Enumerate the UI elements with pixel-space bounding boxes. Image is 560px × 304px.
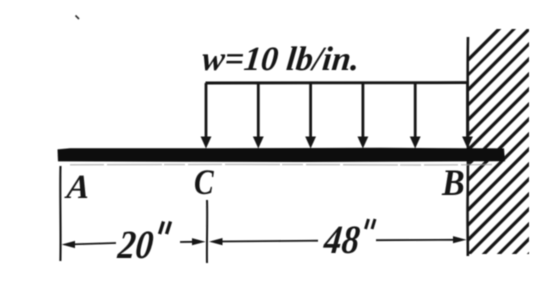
svg-text:w=10 lb/in.: w=10 lb/in. [200,41,361,78]
dim 48 left line segment [217,240,318,243]
dim 20 left line segment [67,243,116,245]
dim 20 right line segment [180,241,196,243]
load arrow 4 [358,83,369,149]
beam [58,148,506,162]
wall hatching [428,0,538,304]
beam lower scan artifact line [70,163,492,166]
svg-text:48: 48 [321,218,362,262]
load arrow 1 [201,83,212,149]
dim 20 left arrow [62,241,76,248]
load arrow 3 [305,83,316,149]
dim 48 left arrow [209,238,223,245]
wall edge line [466,37,469,256]
extension line at A [59,166,61,261]
dim 20 right arrow [192,238,206,245]
speck top-left [76,16,80,20]
svg-text:20: 20 [115,223,156,268]
dim 48 right arrow [453,236,467,243]
load arrow 2 [253,83,264,149]
distributed load top line [206,81,469,84]
load arrow 5 [410,83,421,149]
dim 48 right line segment [376,239,457,241]
extension line at C [206,200,208,263]
svg-text:C: C [194,163,215,202]
load arrow 6 [462,83,473,149]
svg-text:B: B [441,162,465,204]
